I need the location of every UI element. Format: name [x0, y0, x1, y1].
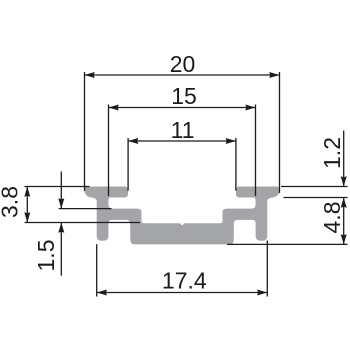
- svg-text:11: 11: [171, 117, 195, 143]
- svg-text:15: 15: [171, 83, 197, 109]
- svg-text:17.4: 17.4: [162, 268, 207, 294]
- svg-text:1.5: 1.5: [33, 240, 59, 272]
- svg-text:4.8: 4.8: [319, 202, 345, 234]
- svg-text:20: 20: [170, 51, 196, 77]
- svg-text:1.2: 1.2: [319, 137, 345, 169]
- svg-text:3.8: 3.8: [0, 186, 23, 218]
